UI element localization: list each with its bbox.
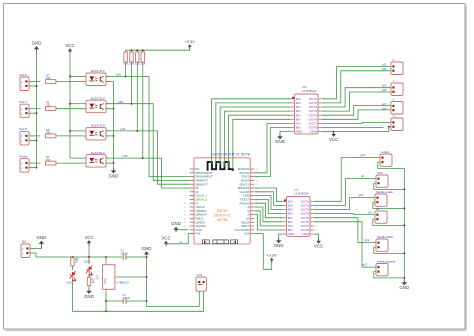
wire OK3 emitter to GND bus	[106, 135, 114, 137]
wire U3 to U1 6IN	[255, 207, 283, 222]
svg-text:VCC: VCC	[84, 235, 93, 240]
svg-text:VIN: VIN	[195, 232, 200, 236]
svg-text:GND: GND	[275, 139, 285, 144]
svg-text:OUT: OUT	[97, 274, 100, 280]
resistor R8 2.2K	[124, 52, 127, 62]
wire VCC to LED2	[88, 245, 90, 264]
module U3 ESP32 DEVKIT V1 36 Pin	[194, 153, 250, 244]
svg-text:GND: GND	[104, 278, 107, 284]
wire limit X pin2 to GND bus	[29, 139, 37, 141]
U3 left pins	[184, 167, 213, 236]
svg-text:GND: GND	[37, 235, 47, 240]
connector J-Spindle PWM	[376, 239, 388, 251]
wire VCC bus to OK2 cathode	[70, 103, 86, 105]
wire R8 to net p36	[125, 62, 127, 76]
junction p39 pull-up tap	[131, 103, 133, 105]
junction GND bus row 4	[36, 167, 38, 169]
junction VCC node at reg OUT	[105, 256, 107, 258]
ground GND4 (U2)	[275, 134, 285, 145]
junction COM rail	[333, 131, 335, 133]
wire U2 GND pin	[280, 132, 290, 134]
wire enable steppers pin2 to GND rail	[374, 272, 405, 278]
wire U2 OUT3 to motor pin	[322, 88, 391, 107]
resistor R4 330	[46, 161, 56, 165]
svg-text:Probe: Probe	[20, 154, 28, 158]
regulator IC1 L7805CV	[97, 262, 130, 292]
svg-text:VCC: VCC	[65, 43, 74, 48]
svg-text:p14: p14	[382, 107, 387, 111]
U3 bottom buttons / usb	[202, 240, 237, 244]
ground GND3 (ESP32)	[171, 221, 181, 232]
svg-text:Spindle PWM: Spindle PWM	[377, 235, 393, 239]
junction pull-up rail	[131, 49, 133, 51]
junction p35 pull-up tap	[142, 157, 144, 159]
svg-text:p27: p27	[382, 102, 387, 106]
svg-text:g2: g2	[361, 174, 365, 178]
supply VCC2 (ESP32 VIN)	[161, 235, 170, 246]
svg-text:p33: p33	[382, 67, 387, 71]
wire U1 OUT2 net g2	[314, 179, 376, 206]
wire limit Z pin1 to R7	[29, 81, 40, 83]
junction p36 pull-up tap	[125, 76, 127, 78]
connector JP2 (limit Z)	[20, 77, 29, 91]
svg-text:limit X: limit X	[20, 127, 28, 131]
wire net opto GND bus	[113, 82, 115, 168]
wire U3 to U1 4IN	[255, 199, 283, 213]
junction GND bus C2	[146, 300, 148, 302]
wire net VCC node (5V rail)	[30, 253, 122, 257]
wire U1 OUT4 net g4	[314, 214, 375, 215]
supply VCC5 (regulator output)	[84, 235, 93, 246]
svg-text:p39: p39	[118, 100, 123, 104]
junction rail Hold	[403, 188, 405, 190]
svg-text:limit Y: limit Y	[20, 100, 28, 104]
wire U3 to U1 5IN	[255, 203, 283, 218]
svg-text:36 PIN: 36 PIN	[217, 218, 228, 222]
svg-text:Y+: Y+	[393, 114, 397, 118]
junction rail Spindle PWM	[403, 252, 405, 254]
wire U2 4IN net	[224, 111, 290, 167]
wire reg IN to V IN	[105, 292, 107, 312]
svg-text:limit Z: limit Z	[20, 73, 28, 77]
svg-text:enable steppers: enable steppers	[377, 259, 396, 263]
junction GND bus row 3	[36, 139, 38, 141]
capacitor C3 100nF	[123, 254, 126, 260]
svg-text:DEVKIT V1: DEVKIT V1	[214, 213, 231, 217]
LED LED1	[68, 270, 80, 282]
svg-text:g19: g19	[365, 238, 370, 242]
svg-text:GND: GND	[399, 285, 409, 290]
wire R2 to LED1	[71, 266, 73, 270]
resistor R7 330	[46, 80, 56, 84]
junction M4 pin2	[388, 126, 390, 128]
svg-text:p36: p36	[116, 73, 121, 77]
wire R5 to OK3 anode	[56, 135, 86, 137]
svg-text:GND: GND	[274, 243, 284, 248]
U3 right pins	[234, 167, 259, 236]
wire U2 COM	[322, 131, 333, 133]
wire Hold pin2 to GND rail	[374, 183, 405, 189]
wire coolant pin2 to GND rail	[378, 162, 405, 168]
capacitor C2 100nF	[123, 298, 126, 304]
svg-text:p32: p32	[382, 63, 387, 67]
svg-text:+3.3V: +3.3V	[267, 253, 277, 257]
ground GND9 (regulator)	[142, 246, 152, 255]
svg-text:VCC: VCC	[161, 235, 170, 240]
svg-text:g4: g4	[369, 210, 373, 214]
svg-text:p26: p26	[382, 88, 387, 92]
wire limit Y pin1 to R6	[29, 108, 40, 110]
optocoupler OK4 EL817D-F	[84, 151, 109, 167]
wire U3 to U1 7IN	[255, 211, 283, 226]
svg-text:GND: GND	[296, 130, 304, 134]
wire R9 to net p39	[131, 62, 133, 104]
connector JP5 (Probe)	[20, 159, 29, 173]
wire net GND bus left	[36, 52, 38, 168]
junction GND bus row 2	[36, 112, 38, 114]
connector J-Hold	[376, 175, 388, 187]
ground GND8 (LED2 chain)	[84, 288, 94, 299]
junction VCC bus row 3	[69, 130, 71, 132]
supply VCC3 (U2 COM)	[329, 132, 338, 142]
wire Dir pin2 to GND rail	[373, 219, 405, 225]
LED LED2	[84, 264, 96, 276]
wire Probe pin1 to R4	[29, 162, 40, 164]
svg-text:GND: GND	[288, 232, 296, 236]
resistor R5 330	[46, 134, 56, 138]
junction opto GND bus row 3	[113, 135, 115, 137]
svg-text:2.2K: 2.2K	[123, 62, 128, 65]
wire Spindle enable pin2 to GND rail	[373, 202, 405, 208]
ground GND2 (opto emitters)	[109, 168, 119, 179]
wire U2 6IN net	[233, 119, 290, 169]
svg-text:p25: p25	[382, 84, 387, 88]
wire reg IN to C2	[106, 300, 123, 302]
connector J-Spindle enable	[375, 194, 387, 206]
resistor R6 330	[46, 107, 56, 111]
wire limit Z pin2 to GND bus	[29, 85, 37, 87]
svg-text:100nF: 100nF	[121, 251, 129, 255]
svg-text:GND: GND	[32, 41, 42, 46]
wire net GND bus to V IN pin1	[147, 255, 200, 307]
wire U3 to U1 3IN	[255, 196, 283, 210]
svg-text:Y: Y	[393, 79, 395, 83]
junction return bus reg IN	[105, 310, 107, 312]
wire net VCC bus left	[69, 54, 71, 159]
svg-text:g21: g21	[363, 262, 368, 266]
wire U2 OUT7 to motor pin	[322, 122, 391, 123]
wire VCC bus to OK4 cathode	[70, 157, 86, 159]
svg-text:g22: g22	[361, 153, 366, 157]
wire U2 OUT4 to motor pin	[322, 92, 391, 111]
wire U3 to U1 1IN	[255, 188, 283, 201]
wire COM rail to motor connector M4	[334, 127, 391, 132]
junction GND bus C3	[146, 256, 148, 258]
junction rail enable steppers	[403, 277, 405, 279]
wire U2 OUT2 to motor pin	[322, 71, 391, 103]
ground GND7 (5V connector)	[37, 235, 47, 248]
svg-text:ULN2803A: ULN2803A	[294, 191, 308, 195]
svg-text:X: X	[393, 97, 395, 101]
wire U3 3v3 to +3.3V	[255, 234, 272, 270]
svg-text:2.2K: 2.2K	[140, 62, 145, 65]
wire U3 GND pin to ground	[176, 229, 188, 231]
junction pull-up rail	[136, 49, 138, 51]
optocoupler OK2 EL817D-F	[84, 96, 109, 112]
junction VCC bus row 1	[69, 76, 71, 78]
wire U1 COM	[314, 234, 318, 238]
svg-text:ULN2803A: ULN2803A	[302, 89, 316, 93]
wire OK1 emitter to GND bus	[106, 81, 114, 83]
junction VCC node at R2	[71, 256, 73, 258]
svg-text:coolant: coolant	[381, 150, 390, 154]
wire R11 to net p35	[142, 62, 144, 158]
svg-text:GND: GND	[171, 221, 181, 226]
IC U2 ULN2803A	[288, 85, 326, 134]
wire net p34 OK3 to ESP32	[106, 131, 190, 184]
optocoupler OK3 EL817D-F	[84, 124, 109, 140]
U3 antenna glyph	[208, 162, 233, 171]
svg-text:GND: GND	[142, 246, 152, 251]
wire net p35 OK4 to ESP32	[106, 158, 190, 188]
ground GND6 (output connectors)	[399, 280, 409, 291]
resistor R9 2.2K	[130, 52, 133, 62]
svg-text:p35: p35	[123, 154, 128, 158]
wire net V IN return bus	[72, 291, 203, 311]
supply VCC4 (U1 COM)	[314, 238, 323, 248]
junction VCC bus row 2	[69, 103, 71, 105]
wire VCC bus to OK1 cathode	[70, 76, 86, 78]
svg-text:GND: GND	[109, 173, 119, 178]
wire reg OUT to VCC node	[105, 257, 107, 262]
wire net output connector GND rail	[403, 168, 405, 279]
wire U2 OUT8	[322, 126, 383, 129]
wire C2 to GND bus	[126, 300, 147, 302]
IC U1 ULN2803A	[280, 188, 318, 237]
wire X1 pin1 to ground	[30, 248, 41, 250]
svg-text:Dir: Dir	[376, 207, 379, 211]
svg-text:ESP32 DEVKIT V1 36 Pin: ESP32 DEVKIT V1 36 Pin	[211, 153, 250, 157]
wire U1 GND pin	[279, 234, 283, 238]
wire limit Y pin2 to GND bus	[29, 112, 37, 114]
wire reg GND to GND bus	[117, 276, 146, 278]
svg-text:GND: GND	[84, 294, 94, 299]
wire U2 3IN net	[220, 107, 290, 166]
svg-text:COM: COM	[302, 232, 310, 236]
connector JP3 (limit Y)	[20, 104, 29, 118]
wire OK4 emitter to GND bus	[106, 162, 114, 164]
wire U1 OUT3 net g16	[314, 198, 375, 210]
wire limit X pin1 to R5	[29, 135, 40, 137]
ground GND1 (limit connector bus)	[32, 41, 42, 52]
wire U2 OUT5 to motor pin	[322, 106, 391, 116]
wire R7 to OK1 anode	[56, 81, 86, 83]
wire U1 OUT5 net g19	[314, 218, 376, 243]
wire U1 OUT6 net g21	[314, 222, 376, 267]
wire R10 to net p34	[136, 62, 138, 131]
svg-text:LED2: LED2	[84, 260, 91, 264]
junction rail Dir	[403, 224, 405, 226]
junction pull-up rail	[142, 49, 144, 51]
wire U2 1IN net	[212, 99, 291, 164]
ground GND5 (U1)	[274, 238, 284, 249]
wire R1 to ground	[88, 286, 90, 289]
wire U3 to U1 2IN	[255, 192, 283, 206]
junction opto GND bus row 2	[113, 108, 115, 110]
svg-text:2K: 2K	[75, 260, 78, 264]
svg-text:COM: COM	[310, 130, 318, 134]
svg-text:2.2K: 2.2K	[129, 62, 134, 65]
connector J-coolant	[380, 154, 392, 166]
wire R6 to OK2 anode	[56, 108, 86, 110]
junction p34 pull-up tap	[136, 130, 138, 132]
wire VCC to U3 VIN	[166, 234, 194, 244]
connector M3 (stepper X)	[391, 102, 403, 115]
resistor R2 2K	[71, 258, 74, 266]
connector M4 (stepper Y+)	[391, 118, 403, 131]
svg-text:VCC: VCC	[314, 244, 323, 249]
wire net +3V3 pull-up rail	[126, 48, 190, 50]
wire C3 to GND bus	[126, 256, 147, 258]
svg-text:3v3: 3v3	[244, 232, 249, 236]
wire U2 OUT6 to motor pin	[322, 110, 391, 119]
junction rail Spindle enable	[403, 207, 405, 209]
svg-text:g16: g16	[359, 193, 364, 197]
resistor R10 2.2K	[136, 52, 139, 62]
junction VCC node at LED2	[88, 256, 90, 258]
supply VCC1 (opto block)	[65, 43, 74, 54]
connector X2 (V IN)	[196, 277, 206, 291]
svg-text:+3.3V: +3.3V	[185, 40, 195, 44]
connector J-enable steppers	[376, 264, 388, 276]
wire U2 7IN to U3 SCL/22	[255, 123, 291, 172]
wire LED2 to R1	[88, 274, 90, 277]
svg-text:L7805CV: L7805CV	[117, 280, 130, 284]
wire U2 2IN net	[216, 103, 290, 165]
svg-text:1K: 1K	[92, 280, 95, 284]
wire net p36 OK1 to ESP32	[106, 77, 190, 177]
svg-text:VCC: VCC	[329, 137, 338, 142]
svg-text:p34: p34	[120, 127, 125, 131]
connector M1 (stepper Z)	[391, 62, 403, 75]
optocoupler OK1 EL817D-F	[84, 69, 109, 85]
svg-text:Hold: Hold	[377, 171, 383, 175]
junction GND bus reg	[146, 276, 148, 278]
junction GND bus row 1	[36, 85, 38, 87]
wire LED1 to V IN return	[71, 280, 73, 312]
connector J-Dir	[375, 211, 387, 223]
U3 value text	[214, 209, 231, 222]
wire U2 OUT1 to motor pin	[322, 67, 391, 99]
wire Probe pin2 to GND bus	[29, 167, 37, 169]
supply +3.3V (pull-up rail)	[185, 40, 195, 49]
junction opto GND bus row 4	[113, 162, 115, 164]
junction reg IN C2	[105, 300, 107, 302]
wire VCC bus to OK3 cathode	[70, 130, 86, 132]
resistor R11 2.2K	[141, 52, 144, 62]
supply +3.3V (ESP32 3v3)	[267, 253, 277, 262]
wire U1 OUT1 net g22	[314, 158, 380, 202]
wire OK2 emitter to GND bus	[106, 108, 114, 110]
connector X1 (5V out)	[21, 244, 30, 258]
connector M2 (stepper Y)	[391, 83, 403, 96]
svg-text:Spindle enable: Spindle enable	[376, 190, 393, 194]
resistor R1 1K	[87, 277, 90, 285]
wire U2 8IN to U3 TX0/1	[255, 128, 291, 177]
wire U3 to U1 8IN	[255, 215, 283, 230]
svg-text:ESP32: ESP32	[217, 209, 227, 213]
wire net p39 OK2 to ESP32	[106, 104, 190, 181]
wire U2 5IN net	[229, 115, 291, 168]
wire R4 to OK4 anode	[56, 162, 86, 164]
connector JP4 (limit X)	[20, 131, 29, 145]
wire Spindle PWM pin2 to GND rail	[374, 247, 405, 253]
